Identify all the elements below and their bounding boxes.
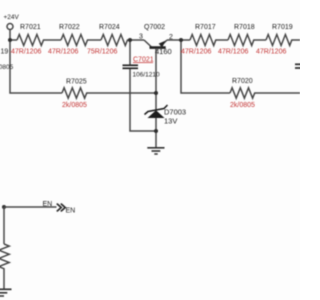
svg-text:R7021: R7021	[20, 24, 41, 31]
svg-text:4160: 4160	[155, 47, 172, 56]
svg-text:19: 19	[1, 49, 9, 56]
svg-text:R7025: R7025	[66, 79, 87, 86]
svg-text:2k/0805: 2k/0805	[62, 102, 87, 109]
svg-text:47R/1206: 47R/1206	[256, 49, 286, 56]
svg-text:2k/0805: 2k/0805	[230, 102, 255, 109]
svg-text:Q7002: Q7002	[144, 24, 165, 31]
svg-text:D7003: D7003	[164, 108, 186, 117]
svg-text:R7018: R7018	[234, 24, 255, 31]
svg-text:R7020: R7020	[232, 78, 253, 85]
svg-text:3: 3	[139, 34, 143, 41]
svg-text:47R/1206: 47R/1206	[218, 49, 248, 56]
svg-text:R7024: R7024	[99, 24, 120, 31]
svg-text:13V: 13V	[164, 117, 177, 126]
svg-text:47R/1206: 47R/1206	[181, 49, 211, 56]
svg-text:EN: EN	[66, 208, 76, 215]
svg-text:R7022: R7022	[59, 24, 80, 31]
svg-text:2: 2	[169, 34, 173, 41]
svg-text:/0805: /0805	[0, 64, 14, 71]
svg-text:47R/1206: 47R/1206	[48, 49, 78, 56]
svg-text:R7019: R7019	[272, 24, 293, 31]
svg-text:75R/1206: 75R/1206	[87, 49, 117, 56]
svg-text:106/1210: 106/1210	[133, 72, 160, 79]
svg-text:+24V: +24V	[4, 14, 20, 21]
svg-text:47R/1206: 47R/1206	[11, 49, 41, 56]
svg-text:R7017: R7017	[195, 24, 216, 31]
svg-text:EN: EN	[43, 201, 53, 208]
